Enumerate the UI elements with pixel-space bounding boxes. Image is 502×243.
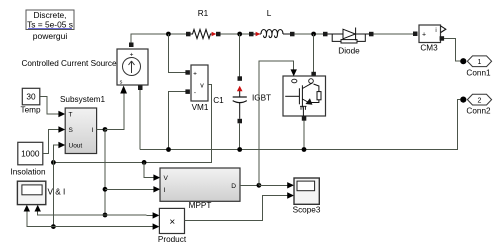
- wire D to IGBT gate: [259, 61, 294, 185]
- controlled current source block U_CCS: [117, 49, 148, 86]
- subsystem block Subsystem1: [65, 108, 96, 154]
- wire L to Diode: [295, 33, 324, 35]
- svg-text:IGBT: IGBT: [252, 94, 271, 103]
- wire 30 to Subsystem1 T: [40, 97, 59, 115]
- wire Diode to CM3: [374, 33, 414, 35]
- svg-text:Temp: Temp: [20, 105, 40, 114]
- wire VM1 v output down and left: [53, 85, 211, 163]
- svg-text:V: V: [164, 175, 169, 182]
- svg-text:V & I: V & I: [48, 188, 66, 197]
- wire top rail to IGBT collector: [313, 34, 315, 72]
- svg-text:Conn2: Conn2: [466, 107, 491, 116]
- svg-text:S: S: [69, 127, 74, 134]
- svg-text:×: ×: [169, 217, 175, 228]
- svg-text:s: s: [120, 80, 123, 86]
- svg-text:Insolation: Insolation: [10, 168, 45, 177]
- junction dot I bottom branch: [103, 213, 108, 218]
- CCS signal input arrow: [120, 86, 127, 94]
- svg-text:I: I: [92, 127, 94, 134]
- connection port Conn1: [467, 56, 491, 67]
- wire V to V&I input 1: [27, 210, 54, 227]
- junction dot bottom rail x=304: [302, 147, 307, 152]
- svg-text:i: i: [435, 28, 436, 34]
- junction dot Conn2 input: [460, 97, 466, 103]
- junction dot V at MPPT branch: [142, 160, 147, 165]
- inductor L: [249, 30, 295, 38]
- scope block Scope3: [294, 178, 319, 204]
- svg-text:CM3: CM3: [420, 43, 438, 52]
- svg-text:VM1: VM1: [192, 103, 209, 112]
- junction dot top rail at x=168: [166, 32, 171, 37]
- wire V down to bottom branch: [52, 162, 54, 226]
- svg-text:v: v: [200, 83, 204, 90]
- wire IGBT emitter to bottom rail: [303, 121, 305, 150]
- junction dot D output: [257, 183, 262, 188]
- IGBT block: [283, 72, 326, 121]
- svg-text:Diode: Diode: [338, 47, 360, 56]
- wire MPPT D output: [240, 184, 259, 186]
- wire C1 branch bottom: [239, 123, 241, 149]
- wire D to Scope3 input 1: [259, 184, 289, 186]
- svg-text:Product: Product: [158, 235, 187, 243]
- wire I signal down: [104, 130, 106, 216]
- wire CM3 to Conn1: [444, 38, 460, 61]
- junction dot I output: [103, 127, 108, 132]
- capacitor C1: [233, 76, 247, 123]
- wire I to MPPT I input: [105, 188, 155, 190]
- svg-text:powergui: powergui: [33, 31, 68, 41]
- svg-text:+: +: [193, 71, 197, 78]
- wire I to Product input 1: [105, 214, 154, 216]
- svg-text:Controlled Current Source: Controlled Current Source: [21, 59, 117, 68]
- svg-text:C1: C1: [213, 96, 224, 105]
- svg-text:Scope3: Scope3: [293, 206, 321, 215]
- svg-text:Subsystem1: Subsystem1: [60, 95, 105, 104]
- resistor R1: [186, 30, 221, 39]
- wire V to MPPT V input: [144, 162, 154, 177]
- wire C1 branch top: [239, 34, 241, 77]
- CCS - terminal port: [138, 86, 143, 91]
- diode D1: [323, 28, 374, 44]
- svg-text:Conn1: Conn1: [466, 69, 491, 78]
- junction dot bottom rail x=240: [237, 147, 242, 152]
- wire R1 to L: [221, 33, 250, 35]
- powergui block: [26, 10, 74, 30]
- wire Product output to Scope3 input 2: [185, 196, 289, 221]
- wire I to CCS signal input: [105, 94, 124, 130]
- junction dot top rail at x=240 (C1 branch): [237, 32, 242, 37]
- wire V to Subsystem1 Uout: [53, 145, 59, 162]
- junction dot bottom rail x=168: [166, 147, 171, 152]
- junction dot I at MPPT branch: [103, 187, 108, 192]
- junction dot Conn1 input: [460, 58, 466, 64]
- svg-text:MPPT: MPPT: [189, 201, 212, 210]
- constant block 30: [22, 88, 40, 105]
- wire Subsystem1 I output: [97, 129, 105, 131]
- svg-text:L: L: [267, 9, 272, 18]
- svg-text:+: +: [422, 32, 426, 39]
- wire I to V&I input 2: [38, 210, 105, 215]
- svg-text:-: -: [194, 90, 196, 97]
- current measurement CM3: [413, 25, 446, 43]
- svg-text:+: +: [130, 52, 134, 59]
- svg-text:R1: R1: [198, 9, 209, 18]
- junction dot V at x=53: [51, 160, 56, 165]
- svg-text:1000: 1000: [21, 149, 40, 159]
- connection port Conn2: [467, 94, 491, 105]
- constant block 1000: [18, 142, 43, 165]
- CCS + terminal port: [129, 43, 134, 48]
- svg-text:2: 2: [478, 97, 482, 104]
- wire CCS+ up to top rail: [131, 34, 186, 43]
- svg-text:Ts = 5e-05 s: Ts = 5e-05 s: [27, 19, 73, 29]
- wire top rail to VM1 +: [168, 34, 185, 72]
- MPPT block: [160, 168, 240, 201]
- product block: [159, 208, 184, 233]
- svg-text:30: 30: [26, 92, 36, 102]
- wire VM1 - to bottom rail: [169, 92, 186, 150]
- svg-text:I: I: [164, 187, 166, 194]
- voltage measurement VM1: [185, 65, 208, 101]
- wire V to Product input 2: [53, 226, 154, 228]
- svg-text:Uout: Uout: [69, 142, 83, 149]
- svg-text:D: D: [231, 183, 236, 190]
- bottom rail wire to Conn2: [140, 100, 460, 150]
- junction dot top rail at x=313 (IGBT branch): [311, 32, 316, 37]
- wire CCS - down to bottom rail: [139, 90, 141, 150]
- wire 1000 to Subsystem1 S: [43, 130, 59, 154]
- svg-text:T: T: [69, 111, 73, 118]
- svg-text:1: 1: [478, 59, 482, 66]
- junction dot V bottom: [51, 224, 56, 229]
- scope block V&I: [17, 181, 45, 204]
